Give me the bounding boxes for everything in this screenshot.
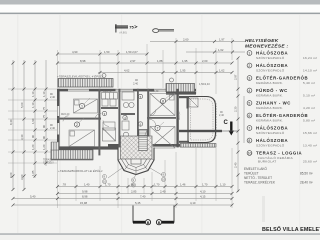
svg-text:14,10 m²: 14,10 m² <box>303 68 317 72</box>
svg-text:3,30: 3,30 <box>20 134 24 140</box>
svg-text:2,40: 2,40 <box>160 190 166 194</box>
guide <box>195 48 197 94</box>
svg-text:25,60 m²: 25,60 m² <box>303 160 317 164</box>
svg-text:90: 90 <box>42 135 46 139</box>
svg-text:1,10: 1,10 <box>31 91 35 97</box>
vertical guide lines from plan to top dims <box>58 38 233 94</box>
svg-text:90/2,40: 90/2,40 <box>178 111 181 120</box>
svg-text:2,60: 2,60 <box>183 38 189 42</box>
svg-text:2,40: 2,40 <box>234 162 238 168</box>
svg-text:2,97: 2,97 <box>130 59 136 63</box>
left outer wall <box>57 89 60 150</box>
legend item 2 <box>247 63 317 72</box>
small circled labels center <box>102 94 142 126</box>
legend item 7 <box>247 126 317 135</box>
svg-text:(4,80): (4,80) <box>120 30 127 34</box>
svg-text:90: 90 <box>31 134 35 138</box>
interior staircase <box>139 130 147 151</box>
bottom dim row 3 <box>13 198 232 200</box>
door swing arcs <box>63 110 156 127</box>
room1 number <box>79 103 84 108</box>
svg-text:1,70: 1,70 <box>154 183 160 187</box>
svg-text:SZEGÉLY: SZEGÉLY <box>43 161 54 164</box>
slash ticks on top dims <box>56 40 234 74</box>
window gap left 1 <box>57 106 60 116</box>
svg-text:90: 90 <box>42 124 46 128</box>
svg-text:1,97: 1,97 <box>219 38 225 42</box>
ticks row B <box>56 62 59 65</box>
svg-text:HÁLÓSZOBA: HÁLÓSZOBA <box>256 51 288 56</box>
svg-text:4,15: 4,15 <box>200 195 206 199</box>
svg-text:15,98: 15,98 <box>80 201 87 205</box>
right hatch strip above wall <box>166 84 195 92</box>
svg-text:1,62: 1,62 <box>219 69 225 73</box>
svg-text:1: 1 <box>81 105 83 109</box>
svg-text:2,85: 2,85 <box>131 190 137 194</box>
svg-text:2,40: 2,40 <box>50 127 55 130</box>
legend item 9 terasz-loggia <box>247 151 317 164</box>
svg-text:90/2,40: 90/2,40 <box>61 113 70 116</box>
svg-text:HÁLÓSZOBA: HÁLÓSZOBA <box>256 126 288 131</box>
svg-text:BELSŐ VILLA EMELET: BELSŐ VILLA EMELET <box>262 226 320 233</box>
svg-text:8,98: 8,98 <box>82 195 88 199</box>
svg-text:7: 7 <box>248 127 250 131</box>
interior vertical wall 1 <box>98 89 100 156</box>
svg-text:9,98: 9,98 <box>82 190 88 194</box>
svg-text:KERÁMIA BURK.: KERÁMIA BURK. <box>256 106 283 110</box>
tiny leader lines <box>79 95 170 126</box>
guide <box>215 48 217 94</box>
svg-text:1,95: 1,95 <box>180 69 186 73</box>
svg-text:FÜRDŐ - WC: FÜRDŐ - WC <box>256 88 288 93</box>
svg-text:1,50/2,40: 1,50/2,40 <box>148 90 159 93</box>
guide <box>117 50 119 88</box>
bed room2 <box>69 130 95 147</box>
bay top connector wall <box>179 96 189 98</box>
svg-text:13,40 m²: 13,40 m² <box>303 143 317 147</box>
svg-text:85,50 m²: 85,50 m² <box>300 172 313 176</box>
top right dim row <box>150 41 245 43</box>
svg-text:2,40: 2,40 <box>133 82 139 86</box>
bottom row slash ticks <box>12 185 234 207</box>
svg-text:1,40: 1,40 <box>84 183 90 187</box>
bottom wall center block <box>108 144 180 147</box>
svg-text:1,85: 1,85 <box>31 170 35 176</box>
interior vertical wall 3 <box>137 89 139 137</box>
svg-text:+TERASZLEVILÁGÍTÁS L 4 ÉPÜLJ: +TERASZLEVILÁGÍTÁS L 4 ÉPÜLJ <box>57 74 104 79</box>
svg-text:4,10: 4,10 <box>190 201 196 205</box>
left chain slash ticks <box>12 62 48 192</box>
svg-text:BURKOLAT: BURKOLAT <box>258 160 276 164</box>
right chain <box>237 58 239 192</box>
svg-text:2,40: 2,40 <box>219 114 224 117</box>
svg-text:1,88: 1,88 <box>157 59 163 63</box>
svg-text:1,20: 1,20 <box>42 144 46 150</box>
svg-text:5,00: 5,00 <box>20 102 24 108</box>
bottom vertical guides <box>58 148 233 208</box>
bottom dim row 1 <box>57 186 232 188</box>
legend item 4 <box>247 88 315 97</box>
window gap top 2 <box>116 89 134 92</box>
svg-text:1,90: 1,90 <box>31 118 35 124</box>
bottom rule line <box>0 233 320 234</box>
balcony hatch strip above top wall <box>58 79 113 88</box>
legend item 1 <box>247 51 317 60</box>
top rule line <box>0 13 320 15</box>
svg-text:4,20 m²: 4,20 m² <box>303 106 315 110</box>
top gray band <box>0 0 320 5</box>
misc window labels inside plan <box>61 90 181 120</box>
section marker B left <box>133 206 151 225</box>
svg-text:75: 75 <box>42 114 46 118</box>
svg-text:1,10: 1,10 <box>31 102 35 108</box>
bed room7 upper <box>150 94 175 116</box>
white strip under top band <box>0 4 320 13</box>
svg-text:2: 2 <box>248 64 250 68</box>
bottom wall left block <box>57 146 119 149</box>
svg-text:1,70: 1,70 <box>202 183 208 187</box>
interior vertical wall 4 (right room left) <box>147 89 149 148</box>
svg-text:7,40: 7,40 <box>140 195 146 199</box>
left chain 3 <box>34 60 36 178</box>
guide <box>162 50 164 88</box>
svg-text:HÁLÓSZOBA: HÁLÓSZOBA <box>256 63 288 68</box>
svg-text:5,10 m²: 5,10 m² <box>303 93 315 97</box>
guide <box>57 50 59 88</box>
svg-text:B: B <box>147 221 150 225</box>
left rotated dim numbers <box>9 91 56 180</box>
svg-text:4,62: 4,62 <box>124 69 130 73</box>
svg-text:5,40: 5,40 <box>30 195 36 199</box>
room2 number <box>74 122 79 127</box>
section marker B right <box>156 206 174 225</box>
svg-text:5: 5 <box>248 102 250 106</box>
bay bottom hatch strip <box>180 144 216 148</box>
left chain 4 <box>45 60 47 166</box>
interior horizontal center <box>101 107 118 109</box>
svg-text:C: C <box>224 120 229 126</box>
top dim row C <box>98 72 232 74</box>
ticks row C <box>99 71 102 74</box>
svg-text:HÁLÓSZOBA: HÁLÓSZOBA <box>256 138 288 143</box>
closet fixtures center column <box>102 93 118 142</box>
svg-text:EMELETI LAKÓ: EMELETI LAKÓ <box>244 166 268 171</box>
svg-text:1,10: 1,10 <box>42 91 46 97</box>
window gap left 2 <box>57 123 60 135</box>
tiled terrace interior <box>121 136 153 159</box>
bottom dim row 4 <box>13 204 232 206</box>
exterior terrace treads bottom-left <box>51 142 93 160</box>
window gap top 3 <box>154 89 168 92</box>
svg-text:5,40 m²: 5,40 m² <box>303 81 315 85</box>
svg-text:75: 75 <box>129 25 134 30</box>
svg-text:ZUHANY - WC: ZUHANY - WC <box>256 101 291 106</box>
stair strip redraw over tile <box>139 136 147 151</box>
svg-text:10: 10 <box>248 152 252 156</box>
svg-text:75: 75 <box>42 106 46 110</box>
svg-text:1,50 2,07: 1,50 2,07 <box>126 50 138 54</box>
right bay terrace <box>188 97 216 143</box>
svg-text:ELŐTÉR-GARDERÓB: ELŐTÉR-GARDERÓB <box>256 76 308 81</box>
svg-text:SZŐNYEGPADLÓ: SZŐNYEGPADLÓ <box>256 142 285 147</box>
svg-text:TERÜLET: TERÜLET <box>244 172 259 176</box>
window gap top 1 <box>68 89 89 92</box>
svg-text:2,30: 2,30 <box>234 106 238 112</box>
svg-text:NETTÓ - TERÜLET: NETTÓ - TERÜLET <box>244 175 272 180</box>
svg-text:3: 3 <box>248 77 250 81</box>
left chain 1 <box>12 60 14 190</box>
svg-text:8: 8 <box>248 139 250 143</box>
svg-text:KERÁMIA BURK.: KERÁMIA BURK. <box>256 93 283 97</box>
svg-text:90/2,40: 90/2,40 <box>103 90 112 93</box>
section cut line through bay <box>179 130 222 132</box>
top dim row A <box>57 53 148 55</box>
svg-text:8,98: 8,98 <box>80 59 86 63</box>
svg-text:1,10: 1,10 <box>220 183 226 187</box>
svg-text:1,46: 1,46 <box>180 183 186 187</box>
bay left wall stub <box>187 97 189 109</box>
svg-text:2: 2 <box>76 123 78 127</box>
svg-text:5,80 m²: 5,80 m² <box>303 118 315 122</box>
scale bar <box>115 26 128 27</box>
svg-text:28,40 m²: 28,40 m² <box>300 181 313 185</box>
room6 number <box>160 98 165 103</box>
svg-text:1,20: 1,20 <box>31 144 35 150</box>
bed room1 <box>74 99 98 113</box>
top dim row B <box>57 62 232 64</box>
svg-text:SZŐNYEGPADLÓ: SZŐNYEGPADLÓ <box>256 67 285 72</box>
svg-text:1: 1 <box>248 52 250 56</box>
svg-text:15,66 m²: 15,66 m² <box>303 131 317 135</box>
guide <box>175 38 177 88</box>
left chain 2 <box>23 60 25 190</box>
svg-text:1,95: 1,95 <box>182 59 188 63</box>
oval detail symbol <box>153 29 174 33</box>
svg-text:SZŐNYEGPADLÓ: SZŐNYEGPADLÓ <box>256 55 285 60</box>
legend item 5 <box>247 101 315 110</box>
ticks top right row <box>175 40 178 43</box>
svg-text:2,97: 2,97 <box>234 74 238 80</box>
leader lines from round bay <box>102 168 165 187</box>
svg-text:ELŐTÉR-GARDERÓB: ELŐTÉR-GARDERÓB <box>256 113 308 118</box>
svg-text:7: 7 <box>157 127 159 131</box>
svg-text:3,00: 3,00 <box>20 174 24 180</box>
svg-text:B: B <box>158 221 161 225</box>
svg-text:1,62: 1,62 <box>218 48 224 52</box>
svg-text:6: 6 <box>248 114 250 118</box>
legend summary block <box>244 166 313 185</box>
guide <box>99 50 101 88</box>
svg-text:.78: .78 <box>62 183 66 187</box>
bath fixtures column <box>122 92 134 144</box>
svg-text:8,40: 8,40 <box>9 119 13 125</box>
svg-text:SZŐNYEGPADLÓ: SZŐNYEGPADLÓ <box>256 130 285 135</box>
legend item 3 <box>247 76 315 85</box>
top dim numbers <box>72 38 225 73</box>
bottom strip <box>0 235 320 240</box>
ticks row A <box>56 53 59 56</box>
legend item 6 <box>247 113 315 122</box>
left chain horizontal connectors <box>8 89 57 163</box>
window size labels top <box>101 78 210 86</box>
svg-text:5,45: 5,45 <box>135 201 141 205</box>
round bay with steps <box>118 148 154 175</box>
svg-text:4: 4 <box>248 89 250 93</box>
svg-text:+TERASZBURKOLAT LE ÉPÜLJ.: +TERASZBURKOLAT LE ÉPÜLJ. <box>58 168 103 173</box>
bottom dim numbers <box>30 183 226 206</box>
right section top wall <box>166 92 196 95</box>
svg-text:KERÁMIA BURK.: KERÁMIA BURK. <box>256 81 283 85</box>
bottom dim row 2 <box>57 193 232 195</box>
guide <box>231 38 233 60</box>
svg-text:TERASZ - LOGGIA: TERASZ - LOGGIA <box>256 151 302 156</box>
svg-text:TERASZ, ERKÉLYEK: TERASZ, ERKÉLYEK <box>244 180 276 185</box>
room7 number <box>155 125 160 130</box>
svg-text:2,00: 2,00 <box>202 59 208 63</box>
interior wall horizontal left <box>57 118 101 120</box>
svg-text:9,60: 9,60 <box>9 172 13 178</box>
svg-text:8: 8 <box>162 100 164 104</box>
svg-text:2,40: 2,40 <box>50 96 55 99</box>
right room right wall <box>176 89 178 148</box>
svg-text:16,24 m²: 16,24 m² <box>303 56 317 60</box>
bed room7 lower <box>150 127 175 149</box>
svg-text:4,10: 4,10 <box>200 190 206 194</box>
top outer wall <box>57 74 196 95</box>
svg-text:4,90: 4,90 <box>72 50 78 54</box>
interior vertical wall 2 <box>118 89 120 148</box>
guide <box>146 44 148 88</box>
svg-text:1,50/2,40: 1,50/2,40 <box>199 82 210 86</box>
legend item 8 <box>247 138 317 147</box>
bay bottom connector wall <box>179 141 189 143</box>
svg-text:KERÁMIA BURK.: KERÁMIA BURK. <box>256 118 283 122</box>
svg-text:1,50: 1,50 <box>104 50 110 54</box>
